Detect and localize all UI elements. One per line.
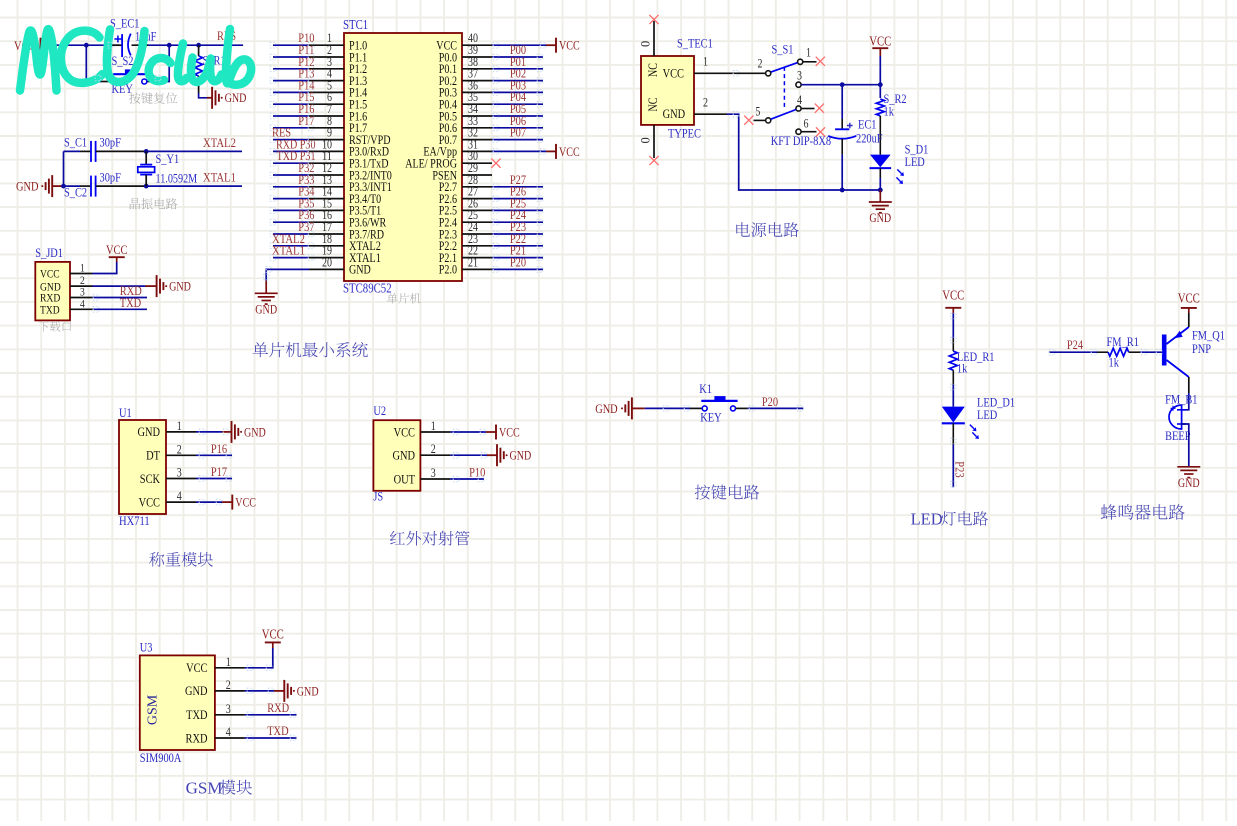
svg-text:XTAL1: XTAL1	[203, 170, 236, 185]
svg-text:1k: 1k	[957, 361, 968, 376]
svg-text:4: 4	[226, 725, 232, 739]
svg-text:EC1: EC1	[858, 117, 877, 132]
svg-text:4: 4	[797, 93, 803, 107]
svg-text:1: 1	[703, 55, 708, 69]
svg-text:TXD: TXD	[186, 707, 207, 722]
wire + net label P10	[450, 465, 485, 480]
wire buzzer to GND	[1181, 424, 1189, 467]
wire + net label RXD (U3)	[245, 700, 297, 715]
wire + net label P22	[492, 231, 543, 246]
wire + net label RXD P30 (pin10)	[273, 137, 316, 151]
junction (C2 / crystal bottom)	[144, 184, 149, 189]
no-connect X (S_S1 pin5)	[744, 116, 753, 125]
svg-text:GND: GND	[869, 211, 891, 225]
wire + net label P27	[492, 172, 543, 187]
svg-text:OUT: OUT	[394, 471, 415, 486]
svg-text:3: 3	[797, 69, 802, 83]
switch S_S1 KFT DIP-8X8	[754, 42, 832, 149]
svg-text:PNP: PNP	[1192, 341, 1211, 356]
wire crystal left vertical	[63, 151, 65, 186]
svg-text:2: 2	[703, 95, 708, 109]
ground GND (U2 pin2)	[450, 444, 531, 466]
junction (C1 / crystal top)	[144, 149, 149, 154]
svg-text:GND: GND	[349, 263, 371, 277]
svg-text:VCC: VCC	[942, 287, 964, 302]
svg-text:FM_R1: FM_R1	[1107, 334, 1139, 349]
junction (EC1 top)	[840, 82, 845, 87]
no-connect X (TYPEC top)	[649, 15, 658, 24]
ground GND (MCU pin20)	[255, 281, 278, 317]
crystal S_Y1 11.0592M	[138, 151, 197, 186]
svg-text:U1: U1	[119, 405, 132, 420]
wire S_S1 pin3 to VCC rail	[801, 84, 880, 86]
wire + net label P35	[273, 195, 315, 210]
svg-text:VCC: VCC	[106, 242, 127, 257]
resistor S_R1 (reset pulldown)	[195, 45, 226, 93]
wire + net label P17	[273, 113, 315, 128]
wire + net label P34	[273, 184, 315, 199]
svg-text:LED: LED	[911, 510, 943, 529]
caption: load cell module	[149, 552, 213, 567]
power symbol VCC (MCU pin40)	[492, 38, 580, 53]
svg-text:TXD: TXD	[120, 295, 141, 310]
wire + net label P02	[492, 66, 543, 81]
svg-text:LED: LED	[977, 407, 997, 422]
svg-text:TXD: TXD	[40, 303, 60, 317]
ground GND (U3 pin2)	[245, 680, 319, 702]
svg-text:KFT DIP-8X8: KFT DIP-8X8	[771, 133, 831, 148]
caption: download port	[38, 321, 71, 332]
wire + net label P04	[492, 89, 543, 104]
svg-text:1: 1	[177, 419, 182, 433]
svg-text:P20: P20	[510, 254, 526, 269]
caption: key circuit	[695, 484, 760, 499]
wire LED_R1 to LED_D1	[952, 370, 954, 406]
resistor LED_R1 1k	[949, 349, 994, 376]
svg-text:XTAL2: XTAL2	[203, 135, 236, 150]
capacitor S_C1 30pF	[64, 134, 121, 162]
svg-text:P23: P23	[953, 461, 968, 477]
wire + net label P20	[492, 254, 543, 269]
svg-text:30pF: 30pF	[100, 134, 121, 149]
svg-text:KEY: KEY	[700, 410, 722, 425]
svg-text:VCC: VCC	[186, 660, 207, 675]
wire + net label TXD P31 (pin11)	[273, 149, 316, 163]
wire button to P20	[736, 407, 804, 409]
buzzer FM_B1 BEEP	[1165, 392, 1197, 443]
resistor FM_R1 1k	[1107, 334, 1139, 370]
wire P24 to FM_R1	[1049, 351, 1108, 353]
svg-text:0: 0	[639, 137, 653, 143]
power symbol VCC (U1 pin4)	[196, 495, 256, 510]
svg-text:S_TEC1: S_TEC1	[677, 36, 713, 51]
power symbol VCC (LED circuit)	[942, 287, 964, 313]
caption: crystal	[130, 198, 178, 209]
wire VCC rail	[879, 56, 881, 98]
svg-text:VCC: VCC	[663, 66, 684, 81]
wire + net label TXD (U3)	[245, 723, 297, 738]
power symbol VCC (buzzer)	[1178, 291, 1200, 314]
wire + net label P01	[492, 54, 543, 69]
svg-text:P17: P17	[211, 464, 228, 479]
wire collector to buzzer	[1181, 377, 1189, 410]
svg-text:U3: U3	[140, 640, 153, 655]
svg-text:S_C1: S_C1	[64, 134, 87, 149]
wire + net label XTAL2 (pin18)	[272, 231, 309, 246]
svg-text:STC1: STC1	[343, 17, 368, 32]
wire + net label P11	[273, 42, 315, 57]
wire + net label P05	[492, 101, 543, 116]
svg-text:GND: GND	[255, 303, 277, 317]
junction (rail bottom)	[878, 188, 883, 193]
svg-text:SCK: SCK	[140, 471, 161, 486]
svg-text:P10: P10	[469, 465, 485, 480]
power symbol VCC (S_JD1 pin1)	[93, 242, 128, 274]
svg-text:GND: GND	[138, 424, 161, 439]
button K1 KEY	[699, 381, 737, 425]
wire TYPEC GND to bottom rail	[727, 114, 880, 190]
svg-text:GND: GND	[244, 425, 266, 439]
logo MCUclub	[20, 29, 251, 91]
no-connect X (S_S1 pin4)	[815, 104, 824, 113]
power symbol VCC (MCU pin31 EA)	[492, 144, 580, 159]
svg-text:3: 3	[431, 466, 436, 480]
wire XTAL2	[112, 150, 242, 152]
caption: LED circuit	[911, 510, 988, 529]
svg-text:1: 1	[226, 655, 231, 669]
svg-text:VCC: VCC	[559, 145, 580, 159]
junction (EC1 bottom)	[840, 188, 845, 193]
svg-text:P17: P17	[298, 113, 315, 128]
svg-text:RXD: RXD	[186, 730, 208, 745]
svg-text:GND: GND	[595, 401, 618, 416]
junction (cap right / switch-right)	[167, 43, 172, 48]
wire + net label P15	[273, 89, 315, 104]
svg-text:6: 6	[804, 117, 809, 131]
wire LED to bottom	[879, 168, 881, 190]
svg-text:4: 4	[80, 296, 85, 310]
ground GND (crystal)	[16, 175, 64, 197]
svg-text:LED: LED	[905, 154, 925, 169]
svg-text:1k: 1k	[1109, 355, 1120, 370]
LED LED_D1	[942, 395, 1015, 440]
svg-text:RXD: RXD	[267, 700, 289, 715]
svg-text:30pF: 30pF	[100, 170, 121, 185]
wire + net label P10	[273, 30, 315, 45]
svg-text:S_C2: S_C2	[64, 185, 87, 200]
wire + net label P16	[196, 441, 232, 456]
svg-text:GND: GND	[169, 280, 191, 294]
no-connect X (TYPEC bottom)	[649, 156, 658, 165]
wire VCC to LED_R1	[952, 313, 954, 351]
ground GND (U1 pin1)	[196, 421, 266, 443]
wire + net label P36	[273, 207, 315, 222]
wire + net label P00	[492, 42, 543, 57]
wire S_R1 to GND	[199, 93, 207, 98]
caption: GSM module	[186, 779, 252, 798]
caption: infrared sensor	[390, 531, 470, 546]
svg-text:1k: 1k	[884, 104, 895, 119]
ground GND (reset)	[207, 87, 246, 109]
wire + net label P24	[492, 207, 543, 222]
no-connect X (S_S1 pin6)	[816, 127, 825, 136]
svg-text:TXD: TXD	[267, 723, 288, 738]
svg-text:P24: P24	[1067, 337, 1084, 352]
no-connect X (pin30 ALE)	[491, 159, 500, 168]
svg-text:GND: GND	[663, 106, 686, 121]
svg-text:GND: GND	[393, 448, 416, 463]
power symbol VCC (U2 pin1)	[450, 425, 519, 440]
connector S_TEC1 TYPEC	[639, 21, 766, 158]
svg-text:HX711: HX711	[119, 513, 150, 528]
svg-text:GND: GND	[225, 91, 247, 105]
junction (VCC / switch-left)	[84, 43, 89, 48]
svg-text:P20: P20	[762, 394, 778, 409]
power symbol VCC (U3 pin1)	[245, 627, 284, 668]
capacitor S_EC1 10uF electrolytic	[110, 15, 156, 57]
svg-text:GND: GND	[16, 179, 39, 194]
IC U3 SIM900A (GSM)	[140, 640, 245, 766]
ground GND (key circuit)	[595, 397, 645, 419]
svg-text:SIM900A: SIM900A	[140, 750, 182, 765]
svg-text:XTAL1: XTAL1	[272, 243, 305, 258]
svg-text:GSM: GSM	[146, 694, 161, 725]
wire + net label P16	[273, 101, 315, 116]
svg-text:2: 2	[758, 57, 763, 71]
caption: power circuit	[736, 222, 799, 237]
svg-text:GND: GND	[297, 684, 319, 698]
wire MCU GND (pin20)	[266, 269, 309, 280]
wire LED_D1 to P23	[952, 423, 954, 487]
wire + net label P26	[492, 184, 543, 199]
wire + net label P25	[492, 195, 543, 210]
switch S_S2 KEY (reset button)	[86, 45, 169, 96]
wire + net label P14	[273, 77, 315, 92]
transistor FM_Q1 PNP	[1162, 327, 1225, 377]
svg-text:JS: JS	[373, 489, 383, 504]
wire + net label RXD	[93, 283, 148, 298]
wire + net label P13	[273, 66, 315, 81]
svg-text:GND: GND	[185, 683, 208, 698]
svg-text:S_S1: S_S1	[772, 42, 794, 57]
wire + net label P03	[492, 77, 543, 92]
svg-text:3: 3	[177, 466, 182, 480]
svg-text:NC: NC	[646, 98, 660, 112]
svg-text:S_JD1: S_JD1	[35, 245, 63, 260]
svg-text:DT: DT	[146, 448, 160, 463]
svg-text:U2: U2	[373, 403, 386, 418]
wire + net label P23	[492, 219, 543, 234]
caption: MCU	[387, 293, 421, 304]
svg-text:VCC: VCC	[499, 425, 520, 439]
wire emitter to VCC	[1188, 313, 1190, 327]
svg-text:3: 3	[226, 702, 231, 716]
svg-text:21: 21	[468, 255, 478, 269]
svg-text:P16: P16	[211, 441, 228, 456]
svg-text:S_S2: S_S2	[112, 53, 134, 68]
svg-text:VCC: VCC	[394, 424, 415, 439]
no-connect X (S_S1 pin1)	[816, 57, 825, 66]
svg-text:TYPEC: TYPEC	[668, 126, 701, 141]
LED S_D1	[870, 142, 929, 185]
junction (S_R1 top)	[196, 43, 201, 48]
junction (GND / C2)	[61, 184, 66, 189]
svg-text:4: 4	[177, 489, 183, 503]
caption: MCU minimum system	[253, 342, 368, 357]
wire XTAL1	[112, 185, 242, 187]
capacitor EC1 220uF electrolytic	[828, 85, 882, 190]
ground GND (buzzer)	[1177, 466, 1200, 468]
svg-text:STC89C52: STC89C52	[343, 281, 392, 296]
svg-text:GSM: GSM	[186, 779, 223, 798]
svg-text:2: 2	[431, 442, 436, 456]
wire + net label TXD	[93, 295, 148, 310]
power symbol VCC (reset rail)	[14, 38, 41, 53]
power symbol VCC (power circuit)	[869, 34, 891, 57]
ground GND (power circuit)	[869, 190, 892, 225]
svg-text:FM_B1: FM_B1	[1165, 392, 1197, 407]
svg-text:GND: GND	[1178, 476, 1200, 490]
capacitor S_C2 30pF	[64, 170, 121, 200]
svg-text:VCC: VCC	[869, 34, 891, 49]
svg-text:2: 2	[226, 678, 231, 692]
connector S_JD1 (download port)	[35, 245, 92, 320]
wire FM_R1 to base	[1129, 351, 1162, 353]
wire GND to button	[645, 407, 702, 409]
wire + net label P06	[492, 113, 543, 128]
IC U2 JS (infrared sensor)	[373, 403, 450, 504]
svg-text:2: 2	[177, 442, 182, 456]
wire + net label P12	[273, 54, 315, 69]
svg-text:VCC: VCC	[262, 627, 284, 642]
ground GND (S_JD1 pin2)	[93, 275, 191, 297]
IC U1 HX711 (load cell)	[119, 405, 196, 528]
svg-text:GND: GND	[510, 449, 532, 463]
resistor S_R2 1k	[876, 91, 906, 119]
wire + net label RES (pin9)	[272, 125, 309, 140]
wire + net label P17	[196, 464, 232, 479]
caption: buzzer circuit	[1101, 504, 1185, 520]
caption: reset	[129, 92, 177, 103]
wire + net label P37	[273, 219, 315, 234]
svg-text:220uF: 220uF	[856, 131, 883, 146]
svg-text:VCC: VCC	[139, 494, 160, 509]
svg-text:5: 5	[755, 105, 760, 119]
svg-text:1: 1	[806, 46, 811, 60]
svg-text:1: 1	[431, 419, 436, 433]
svg-text:P2.0: P2.0	[439, 263, 457, 277]
wire + net label P21	[492, 243, 543, 258]
svg-text:VCC: VCC	[235, 496, 256, 510]
svg-text:VCC: VCC	[559, 39, 580, 53]
wire S_R2 to LED	[879, 116, 881, 155]
svg-text:20: 20	[322, 255, 332, 269]
svg-text:P07: P07	[510, 125, 527, 140]
svg-text:VCC: VCC	[1178, 291, 1200, 306]
svg-text:11.0592M: 11.0592M	[156, 172, 198, 186]
wire + net label P07	[492, 125, 543, 140]
svg-text:NC: NC	[646, 63, 660, 77]
svg-text:BEEP: BEEP	[1165, 428, 1190, 443]
wire + net label P32	[273, 160, 315, 175]
svg-text:S_Y1: S_Y1	[156, 151, 180, 166]
wire reset rail	[41, 44, 244, 46]
wire + net label P33	[273, 172, 315, 187]
wire + net label XTAL1 (pin19)	[272, 243, 309, 258]
svg-text:0: 0	[639, 41, 653, 47]
svg-text:K1: K1	[699, 381, 712, 396]
junction (rail / pin3)	[878, 82, 883, 87]
IC STC1 STC89C52 (MCU)	[309, 17, 492, 296]
